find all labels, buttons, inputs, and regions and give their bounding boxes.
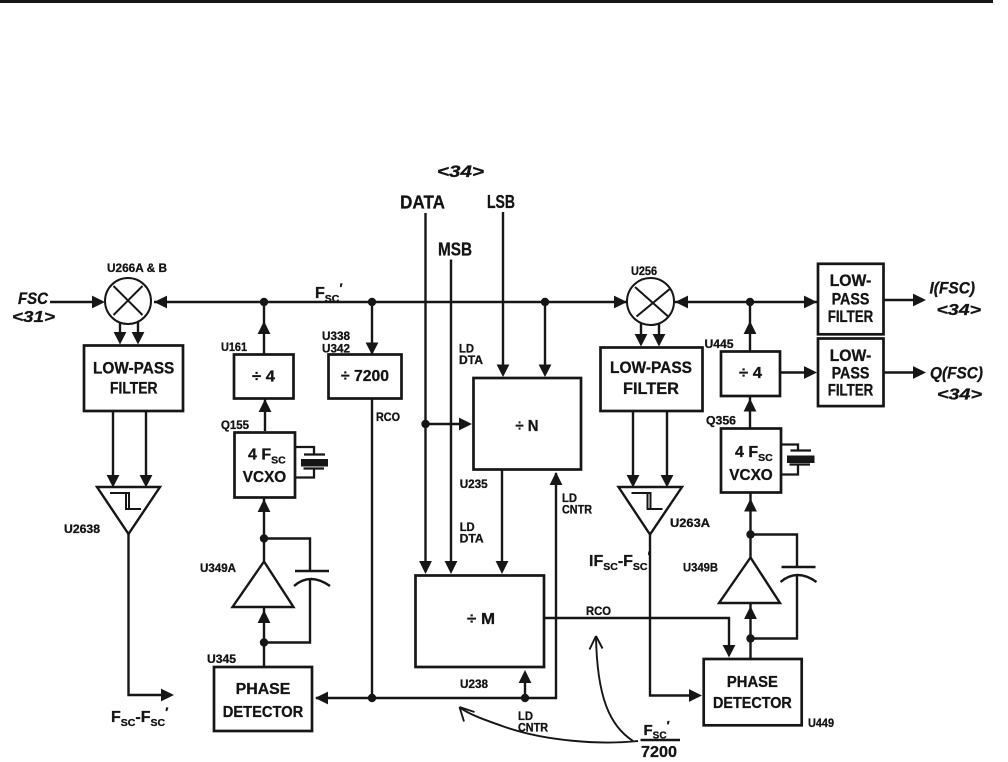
svg-text:LD: LD <box>460 522 475 534</box>
svg-text:LD: LD <box>562 493 577 505</box>
svg-text:U449: U449 <box>808 716 834 730</box>
svg-text:7200: 7200 <box>641 744 677 761</box>
svg-text:LOW-PASS: LOW-PASS <box>93 360 174 378</box>
svg-text:DETECTOR: DETECTOR <box>713 695 792 712</box>
svg-text:FILTER: FILTER <box>828 308 874 326</box>
svg-text:U235: U235 <box>460 477 488 491</box>
svg-text:÷ 4: ÷ 4 <box>252 369 275 386</box>
svg-text:Q356: Q356 <box>706 414 736 428</box>
svg-text:Q(FSC): Q(FSC) <box>930 365 983 383</box>
svg-text:FILTER: FILTER <box>110 380 158 398</box>
svg-text:U266A & B: U266A & B <box>107 261 167 275</box>
svg-text:MSB: MSB <box>438 240 472 260</box>
svg-text:U263A: U263A <box>670 516 710 530</box>
svg-text:DTA: DTA <box>460 534 484 546</box>
svg-text:U2638: U2638 <box>64 522 100 536</box>
svg-text:÷ 7200: ÷ 7200 <box>341 368 389 385</box>
svg-text:DETECTOR: DETECTOR <box>223 704 304 721</box>
svg-text:LOW-: LOW- <box>830 347 872 365</box>
svg-text:LOW-: LOW- <box>830 272 872 290</box>
svg-text:CNTR: CNTR <box>562 505 593 517</box>
svg-text:DATA: DATA <box>400 193 445 213</box>
svg-text:÷ 4: ÷ 4 <box>739 365 762 382</box>
svg-text:PASS: PASS <box>832 290 870 308</box>
svg-text:VCXO: VCXO <box>243 469 286 486</box>
svg-text:U238: U238 <box>460 677 488 691</box>
svg-text:÷ N: ÷ N <box>516 418 539 435</box>
svg-text:LD: LD <box>459 344 474 356</box>
svg-text:VCXO: VCXO <box>729 467 772 484</box>
svg-text:I(FSC): I(FSC) <box>930 280 976 298</box>
svg-text:<34>: <34> <box>937 302 982 319</box>
svg-text:U349B: U349B <box>683 561 718 575</box>
svg-text:FILTER: FILTER <box>623 380 679 398</box>
svg-text:LD: LD <box>518 711 533 723</box>
svg-text:U349A: U349A <box>200 561 236 575</box>
svg-text:PASS: PASS <box>832 365 870 383</box>
svg-text:Q155: Q155 <box>221 418 249 432</box>
svg-text:U161: U161 <box>221 340 247 354</box>
svg-text:U445: U445 <box>705 337 734 351</box>
svg-text:FILTER: FILTER <box>828 382 874 400</box>
svg-text:RCO: RCO <box>376 412 400 424</box>
svg-text:U345: U345 <box>207 652 236 666</box>
svg-text:DTA: DTA <box>459 355 483 367</box>
svg-text:U256: U256 <box>631 264 657 278</box>
svg-text:CNTR: CNTR <box>518 723 549 735</box>
svg-text:U342: U342 <box>322 342 350 356</box>
svg-text:LSB: LSB <box>487 192 515 212</box>
svg-text:÷ M: ÷ M <box>467 611 495 628</box>
svg-text:<31>: <31> <box>12 309 55 326</box>
svg-text:FSC: FSC <box>18 290 49 308</box>
svg-text:<34>: <34> <box>437 163 484 181</box>
svg-text:PHASE: PHASE <box>727 674 778 691</box>
svg-text:LOW-PASS: LOW-PASS <box>610 359 692 377</box>
svg-text:RCO: RCO <box>586 606 611 618</box>
svg-text:PHASE: PHASE <box>236 681 291 698</box>
svg-text:<34>: <34> <box>937 387 982 404</box>
